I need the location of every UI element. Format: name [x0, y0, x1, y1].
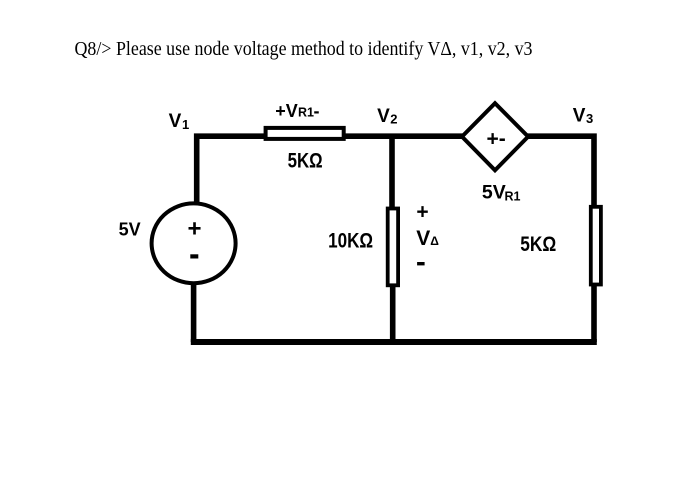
svg-text:V: V [416, 227, 430, 250]
svg-text:+V: +V [275, 101, 298, 121]
svg-text:5V: 5V [482, 182, 506, 204]
svg-text:5KΩ: 5KΩ [520, 233, 556, 256]
svg-text:V: V [573, 106, 586, 127]
svg-text:10KΩ: 10KΩ [328, 230, 373, 253]
svg-text:-: - [314, 101, 320, 121]
svg-text:V: V [377, 106, 390, 127]
svg-text:3: 3 [586, 111, 593, 126]
svg-text:Δ: Δ [430, 234, 439, 248]
svg-text:Q8/> Please use node voltage m: Q8/> Please use node voltage method to i… [75, 39, 533, 60]
svg-text:+: + [416, 201, 428, 224]
svg-text:5V: 5V [119, 220, 141, 240]
svg-text:5KΩ: 5KΩ [288, 150, 323, 173]
svg-text:R1: R1 [298, 106, 314, 120]
svg-text:R1: R1 [505, 189, 521, 203]
svg-text:+-: +- [487, 128, 506, 151]
svg-text:2: 2 [390, 112, 397, 127]
svg-text:1: 1 [182, 117, 189, 132]
svg-text:V: V [169, 111, 182, 132]
svg-text:+: + [187, 216, 201, 243]
